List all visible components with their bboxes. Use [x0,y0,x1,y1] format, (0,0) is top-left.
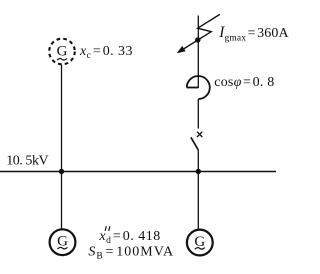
generator G2 [50,229,76,255]
wire: feeder top down to reactor [197,16,199,89]
wire: busbar down to generator G2 [61,172,63,230]
node: junction dot on feeder [195,37,200,42]
wire: breaker to busbar [197,150,199,172]
arrowhead of lightning arrow [177,46,186,53]
generator G3 [187,230,213,256]
lightning arrow (fault current direction) [181,14,220,51]
circuit breaker QF (switch with x contact mark) [191,132,202,150]
svg-text:G: G [194,234,205,250]
svg-text:G: G [57,234,68,250]
busbar 10.5kV [0,171,276,173]
wire: reactor to circuit breaker [197,99,199,129]
svg-text:G: G [57,44,68,60]
generator G1 (standby unit, dashed circle) [49,39,75,65]
wire: G1 down to busbar [61,65,63,172]
reactor L (3/4 circle with radius lead) [187,76,210,99]
double prime of x_d'' [105,226,110,231]
wire: busbar down to generator G3 [197,172,199,230]
svg-text:10. 5kV: 10. 5kV [6,154,48,169]
svg-text:cosφ=0. 8: cosφ=0. 8 [214,75,274,90]
node: busbar junction right [196,169,201,174]
node: busbar junction left [59,169,64,174]
